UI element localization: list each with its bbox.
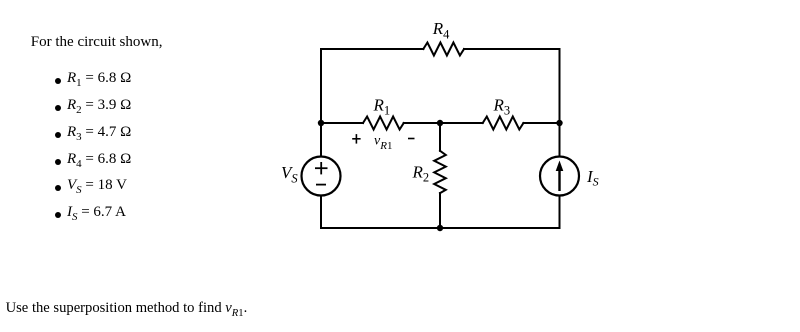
svg-text:vR1: vR1: [374, 134, 392, 152]
svg-text:R3: R3: [493, 95, 511, 117]
svg-text:VS: VS: [281, 163, 298, 185]
svg-text:R4: R4: [432, 19, 450, 41]
svg-text:IS: IS: [586, 167, 599, 189]
svg-text:R2: R2: [412, 162, 430, 184]
svg-text:R1: R1: [373, 95, 391, 117]
